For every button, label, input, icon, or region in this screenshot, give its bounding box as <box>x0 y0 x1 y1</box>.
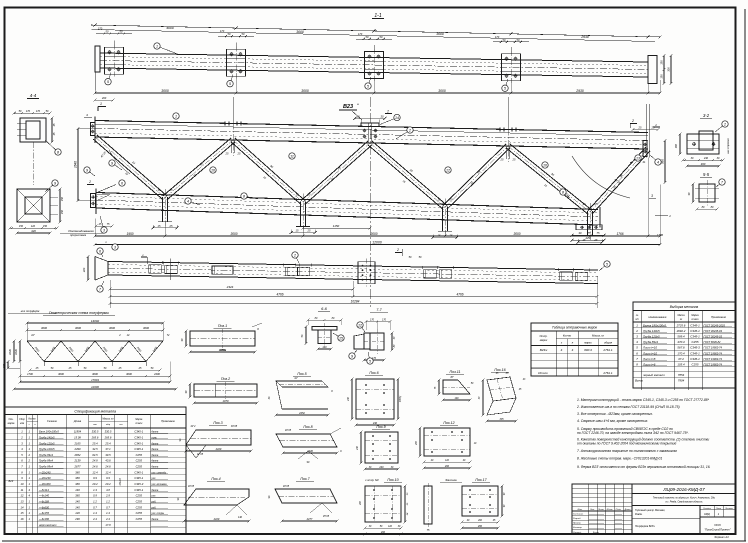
svg-text:С255: С255 <box>136 517 143 521</box>
svg-text:265.6: 265.6 <box>104 435 112 439</box>
svg-text:2: 2 <box>723 122 726 126</box>
svg-text:1150: 1150 <box>333 224 340 228</box>
svg-text:12000: 12000 <box>91 385 99 389</box>
svg-text:25: 25 <box>169 188 173 192</box>
svg-text:170: 170 <box>358 32 363 36</box>
svg-text:3000: 3000 <box>513 232 520 236</box>
svg-text:25: 25 <box>225 152 229 156</box>
svg-text:1: 1 <box>175 114 177 118</box>
svg-text:25: 25 <box>594 202 598 206</box>
svg-text:№: № <box>636 314 639 317</box>
svg-text:4000: 4000 <box>166 26 174 30</box>
svg-text:Листов: Листов <box>724 508 733 510</box>
svg-text:2: 2 <box>396 248 399 252</box>
svg-text:40°25: 40°25 <box>285 429 292 432</box>
svg-text:200: 200 <box>477 520 483 522</box>
svg-text:2477: 2477 <box>306 517 313 521</box>
svg-text:13: 13 <box>21 500 24 504</box>
svg-text:1712.8: 1712.8 <box>119 478 122 486</box>
svg-text:300: 300 <box>701 162 706 166</box>
svg-text:1. Материал конструкций - стал: 1. Материал конструкций - сталь марок С3… <box>577 398 710 402</box>
svg-text:25: 25 <box>237 152 241 156</box>
svg-text:560: 560 <box>661 159 665 164</box>
svg-text:Спецификация металла: Спецификация металла <box>74 410 116 414</box>
svg-text:С255: С255 <box>692 340 699 344</box>
svg-text:Итого: Итого <box>538 371 548 375</box>
svg-text:41°: 41° <box>294 377 298 380</box>
svg-text:14: 14 <box>395 116 399 120</box>
svg-text:265.6: 265.6 <box>91 435 99 439</box>
svg-text:Поз.5: Поз.5 <box>297 372 306 376</box>
svg-text:150: 150 <box>660 60 664 65</box>
svg-text:Провер.: Провер. <box>573 523 582 525</box>
svg-text:Лист: Лист <box>597 509 604 511</box>
svg-text:11954: 11954 <box>74 430 82 434</box>
svg-text:200: 200 <box>444 465 450 468</box>
svg-text:В23: В23 <box>343 104 353 110</box>
svg-text:С345-1: С345-1 <box>690 329 700 333</box>
svg-text:20.2: 20.2 <box>91 482 98 486</box>
svg-text:2.4: 2.4 <box>92 517 97 521</box>
svg-text:140: 140 <box>75 500 80 504</box>
svg-text:Поз.16: Поз.16 <box>494 368 505 372</box>
svg-text:5: 5 <box>504 87 506 91</box>
svg-text:17.8: 17.8 <box>105 523 111 527</box>
svg-text:39.5: 39.5 <box>105 453 111 457</box>
svg-text:1056в: 1056в <box>219 348 227 352</box>
svg-text:Н.контр.: Н.контр. <box>573 527 583 529</box>
svg-text:25: 25 <box>500 158 504 162</box>
svg-text:3000: 3000 <box>75 326 81 330</box>
svg-text:3000: 3000 <box>58 372 64 376</box>
svg-text:2652: 2652 <box>74 453 81 457</box>
svg-text:Согласов.: Согласов. <box>573 513 584 515</box>
svg-text:37.2: 37.2 <box>678 357 684 361</box>
svg-text:Примечание: Примечание <box>711 315 726 319</box>
svg-text:2. Изготовление шв-в по сеткам: 2. Изготовление шв-в по сеткам ГОСТ 2311… <box>576 405 680 409</box>
svg-text:32.5: 32.5 <box>92 447 98 451</box>
svg-text:2761.1: 2761.1 <box>602 348 613 352</box>
svg-text:3000: 3000 <box>436 32 444 36</box>
svg-text:9. Ферма В23' отличается от фе: 9. Ферма В23' отличается от фермы В23н з… <box>577 465 711 469</box>
svg-text:С345-1: С345-1 <box>134 441 143 445</box>
svg-text:0.9: 0.9 <box>93 494 97 498</box>
svg-text:С255: С255 <box>136 494 143 498</box>
svg-text:300: 300 <box>675 143 678 148</box>
svg-text:С345-3: С345-3 <box>134 482 143 486</box>
svg-text:140: 140 <box>75 505 80 509</box>
svg-text:1640: 1640 <box>14 349 18 355</box>
svg-text:марка: марка <box>8 422 15 425</box>
svg-text:15: 15 <box>21 511 24 515</box>
svg-text:140: 140 <box>455 397 460 400</box>
svg-text:5: 5 <box>107 80 109 84</box>
svg-text:4766: 4766 <box>276 293 283 297</box>
svg-text:12.4: 12.4 <box>105 470 111 474</box>
svg-text:С345-1: С345-1 <box>134 435 143 439</box>
svg-text:С345-1: С345-1 <box>690 335 700 339</box>
svg-text:2: 2 <box>635 329 638 333</box>
svg-text:2761.1: 2761.1 <box>602 371 613 375</box>
svg-text:25: 25 <box>98 223 102 226</box>
svg-text:2490: 2490 <box>74 447 81 451</box>
svg-text:В23': В23' <box>8 479 14 483</box>
svg-text:2: 2 <box>386 110 389 114</box>
svg-text:12000: 12000 <box>372 241 382 245</box>
svg-text:40°25: 40°25 <box>283 485 290 488</box>
svg-text:300: 300 <box>667 67 671 72</box>
svg-text:Подп.: Подп. <box>616 508 622 511</box>
svg-text:Поз.10: Поз.10 <box>387 478 398 482</box>
svg-text:С345-1: С345-1 <box>134 430 143 434</box>
svg-text:140: 140 <box>238 516 243 519</box>
svg-text:Осн.: Осн. <box>8 418 13 421</box>
svg-text:12: 12 <box>21 494 24 498</box>
svg-text:0.7: 0.7 <box>93 505 97 509</box>
svg-text:64.5: 64.5 <box>92 453 98 457</box>
svg-text:3000: 3000 <box>230 232 237 236</box>
svg-text:С345-1: С345-1 <box>134 488 143 492</box>
svg-text:Поз.3: Поз.3 <box>213 421 222 425</box>
svg-text:45°25: 45°25 <box>323 515 330 518</box>
svg-text:Тентовый комплекс по адресу ул: Тентовый комплекс по адресу ул. Колич. А… <box>653 497 716 500</box>
svg-text:Кол.: Кол. <box>590 509 595 511</box>
svg-text:3: 3 <box>103 228 105 232</box>
svg-text:2139: 2139 <box>74 459 81 463</box>
svg-text:4-4: 4-4 <box>30 93 37 98</box>
svg-text:Поз.1: Поз.1 <box>218 324 227 328</box>
svg-text:2930: 2930 <box>580 35 589 39</box>
svg-text:150: 150 <box>43 225 48 228</box>
svg-text:15: 15 <box>339 336 343 340</box>
svg-text:Поз.17: Поз.17 <box>475 478 487 482</box>
svg-text:1766: 1766 <box>657 233 664 237</box>
svg-text:Ревда.: Ревда. <box>635 513 643 516</box>
svg-text:7. Антикоррозионная покрытие п: 7. Антикоррозионная покрытие по согласов… <box>577 449 677 453</box>
svg-text:С255: С255 <box>136 465 143 469</box>
svg-text:Примечание: Примечание <box>161 420 175 423</box>
svg-text:3000: 3000 <box>143 326 149 330</box>
svg-text:1.4: 1.4 <box>93 511 97 515</box>
svg-text:Кол-во: Кол-во <box>563 334 572 338</box>
svg-text:5: 5 <box>606 262 608 266</box>
svg-text:ООО: ООО <box>714 523 721 527</box>
svg-text:2400: 2400 <box>153 372 160 376</box>
svg-text:3: 3 <box>114 245 116 249</box>
svg-text:41°: 41° <box>31 334 35 337</box>
svg-text:380: 380 <box>75 482 80 486</box>
svg-text:низ стропил: низ стропил <box>727 138 730 154</box>
svg-text:стали: стали <box>691 318 699 321</box>
svg-text:12: 12 <box>446 168 450 172</box>
svg-text:1766: 1766 <box>616 232 623 236</box>
svg-text:С255: С255 <box>136 453 143 457</box>
svg-text:С255: С255 <box>136 500 143 504</box>
svg-text:9.9: 9.9 <box>93 476 97 480</box>
svg-text:10: 10 <box>21 482 24 486</box>
svg-text:прорисовка: прорисовка <box>70 233 86 237</box>
svg-text:25: 25 <box>512 158 516 162</box>
svg-text:по ГОСТ 2246-70, на заводе эле: по ГОСТ 2246-70, на заводе электродами т… <box>577 431 689 435</box>
svg-text:25.4: 25.4 <box>91 441 98 445</box>
svg-text:С255: С255 <box>136 505 143 509</box>
svg-text:235: 235 <box>3 363 6 369</box>
svg-text:16: 16 <box>21 517 24 521</box>
svg-text:25: 25 <box>169 224 173 228</box>
svg-text:С345-1: С345-1 <box>690 351 700 355</box>
svg-text:17004: 17004 <box>91 378 99 382</box>
svg-text:9: 9 <box>351 354 353 358</box>
svg-text:Геометрическая схема полуфермы: Геометрическая схема полуфермы <box>49 311 109 315</box>
svg-text:43.6: 43.6 <box>105 459 111 463</box>
svg-text:4. Сварные швы 4+6 мм, кроме о: 4. Сварные швы 4+6 мм, кроме оговоренных… <box>577 419 648 423</box>
svg-text:200: 200 <box>101 96 107 100</box>
svg-text:105.4: 105.4 <box>677 363 685 367</box>
svg-text:290: 290 <box>74 517 80 521</box>
svg-text:41°25: 41°25 <box>197 453 204 456</box>
svg-text:380: 380 <box>75 494 80 498</box>
svg-text:2: 2 <box>631 119 634 123</box>
svg-text:Разраб.: Разраб. <box>573 518 581 520</box>
svg-text:20.2: 20.2 <box>104 482 111 486</box>
svg-text:45°: 45° <box>450 376 454 379</box>
svg-text:С255: С255 <box>692 363 699 367</box>
svg-text:С255: С255 <box>136 459 143 463</box>
svg-text:5: 5 <box>229 82 231 86</box>
svg-text:2429: 2429 <box>213 517 220 521</box>
svg-text:25: 25 <box>307 229 311 233</box>
svg-text:Масса, кг: Масса, кг <box>102 418 114 421</box>
svg-text:3000у: 3000у <box>400 395 402 402</box>
svg-text:140: 140 <box>322 346 327 349</box>
svg-text:12: 12 <box>358 323 362 327</box>
svg-text:Марка: Марка <box>691 314 699 317</box>
svg-text:0.7: 0.7 <box>106 505 110 509</box>
svg-text:170: 170 <box>370 319 375 322</box>
svg-text:марки: марки <box>584 342 592 345</box>
svg-text:Фурм.: Фурм. <box>593 531 600 534</box>
svg-text:15.08: 15.08 <box>74 435 81 439</box>
svg-text:25: 25 <box>449 197 453 201</box>
svg-text:4: 4 <box>187 199 189 203</box>
svg-text:37.1: 37.1 <box>105 447 111 451</box>
svg-text:140: 140 <box>75 488 80 492</box>
svg-text:3000: 3000 <box>296 30 304 34</box>
svg-text:11: 11 <box>290 154 294 158</box>
svg-text:25: 25 <box>449 233 453 237</box>
svg-text:Сечение: Сечение <box>47 420 58 423</box>
svg-text:2930: 2930 <box>575 89 584 93</box>
svg-text:280: 280 <box>477 525 483 528</box>
svg-text:2429: 2429 <box>215 447 222 451</box>
svg-text:690.3: 690.3 <box>584 348 592 352</box>
svg-text:3000: 3000 <box>41 326 47 330</box>
svg-text:150: 150 <box>19 225 24 228</box>
svg-text:4.8: 4.8 <box>106 488 110 492</box>
svg-text:5-5: 5-5 <box>703 172 710 177</box>
svg-text:589.4: 589.4 <box>677 335 685 339</box>
svg-text:25.4: 25.4 <box>104 441 111 445</box>
svg-text:"ПромСтройПроект": "ПромСтройПроект" <box>704 528 731 532</box>
svg-text:ном: ном <box>20 423 25 425</box>
svg-text:Торговый центр. Весовая,: Торговый центр. Весовая, <box>635 509 665 512</box>
svg-text:260: 260 <box>360 500 362 506</box>
svg-text:6-6: 6-6 <box>321 306 328 311</box>
svg-text:2324: 2324 <box>226 285 234 289</box>
svg-text:3-2: 3-2 <box>703 113 710 118</box>
svg-text:1: 1 <box>156 44 158 48</box>
svg-text:Отпр.: Отпр. <box>539 334 547 338</box>
svg-text:Поз.7: Поз.7 <box>300 477 310 481</box>
svg-text:240: 240 <box>378 466 384 469</box>
svg-text:от окалины по ГОСТ 9.402-2004: от окалины по ГОСТ 9.402-2004 под механи… <box>577 442 677 446</box>
svg-text:1.4: 1.4 <box>106 511 110 515</box>
svg-text:200: 200 <box>416 440 418 446</box>
svg-text:3000: 3000 <box>370 232 377 236</box>
svg-text:7854: 7854 <box>678 373 685 377</box>
svg-text:25: 25 <box>638 126 642 130</box>
svg-text:1070: 1070 <box>223 399 229 403</box>
svg-text:170: 170 <box>98 27 103 31</box>
svg-text:8: 8 <box>243 194 245 198</box>
svg-text:380: 380 <box>75 470 80 474</box>
svg-text:25: 25 <box>307 193 311 197</box>
svg-text:120: 120 <box>31 225 36 228</box>
svg-text:240: 240 <box>703 157 709 160</box>
svg-text:9: 9 <box>86 168 88 172</box>
svg-text:120: 120 <box>75 511 80 515</box>
svg-text:общая: общая <box>604 341 613 345</box>
svg-text:Изм.: Изм. <box>578 509 583 511</box>
svg-text:2165: 2165 <box>74 441 81 445</box>
svg-text:С345-1: С345-1 <box>690 357 700 361</box>
svg-text:170: 170 <box>382 319 387 322</box>
svg-text:Длина: Длина <box>73 420 82 423</box>
svg-text:Поз.8: Поз.8 <box>303 425 312 429</box>
svg-text:2: 2 <box>408 128 411 132</box>
svg-text:9: 9 <box>111 161 113 165</box>
svg-text:170: 170 <box>36 110 41 113</box>
svg-text:335: 335 <box>500 418 505 421</box>
svg-text:13: 13 <box>636 156 640 160</box>
svg-text:170.4: 170.4 <box>677 351 685 355</box>
svg-text:8: 8 <box>562 190 564 194</box>
svg-text:С345-3: С345-3 <box>690 346 700 350</box>
svg-text:марки: марки <box>540 339 548 342</box>
svg-text:1.3: 1.3 <box>93 488 97 492</box>
svg-text:2692.2: 2692.2 <box>676 329 686 333</box>
svg-text:узл. опоры: узл. опоры <box>151 512 165 515</box>
svg-text:3. Все отверстия - Ø23мм, кром: 3. Все отверстия - Ø23мм, кроме оговорен… <box>577 412 653 416</box>
svg-text:170: 170 <box>26 110 31 113</box>
svg-text:170: 170 <box>495 35 500 39</box>
svg-text:1640: 1640 <box>8 349 12 355</box>
svg-text:10284: 10284 <box>351 300 360 304</box>
svg-text:2.9: 2.9 <box>105 494 110 498</box>
svg-text:12.4: 12.4 <box>92 470 98 474</box>
svg-text:220: 220 <box>82 267 86 273</box>
svg-text:2452: 2452 <box>298 411 305 415</box>
svg-text:1.2: 1.2 <box>106 500 110 504</box>
svg-text:Поз.11: Поз.11 <box>450 370 461 374</box>
svg-text:1700: 1700 <box>27 372 33 376</box>
svg-text:5: 5 <box>367 84 369 88</box>
svg-text:330.5: 330.5 <box>92 430 99 434</box>
svg-text:Марка: Марка <box>135 419 143 421</box>
svg-text:Лист: Лист <box>715 508 722 510</box>
svg-text:3000: 3000 <box>438 89 446 93</box>
svg-text:240: 240 <box>347 396 350 402</box>
svg-text:30°25: 30°25 <box>231 425 238 428</box>
svg-text:ЛЦ09-2016-КМД-07: ЛЦ09-2016-КМД-07 <box>662 487 705 492</box>
svg-text:С255: С255 <box>136 511 143 515</box>
svg-text:10: 10 <box>543 163 547 167</box>
svg-text:5. Сварку производить проволок: 5. Сварку производить проволокой СВ08Г2С… <box>577 427 673 431</box>
svg-text:200: 200 <box>380 531 386 534</box>
svg-text:к отпр. М2: к отпр. М2 <box>365 478 379 482</box>
svg-text:6: 6 <box>121 181 123 185</box>
svg-text:3000: 3000 <box>126 372 132 376</box>
svg-text:4: 4 <box>657 160 659 164</box>
svg-text:низ полуферм: низ полуферм <box>21 309 40 313</box>
svg-text:3000: 3000 <box>92 372 98 376</box>
svg-text:380: 380 <box>75 476 80 480</box>
svg-text:170: 170 <box>220 29 225 33</box>
svg-text:С345-1: С345-1 <box>134 476 143 480</box>
svg-text:6: 6 <box>99 249 101 253</box>
svg-text:Формат А4: Формат А4 <box>714 535 729 539</box>
svg-text:в г. Ревда, Свердловская облас: в г. Ревда, Свердловская область <box>665 501 703 504</box>
svg-text:Кол-во: Кол-во <box>28 419 36 421</box>
svg-text:№док: №док <box>607 508 614 511</box>
svg-text:41°2: 41°2 <box>191 425 197 428</box>
svg-text:2725.6: 2725.6 <box>676 323 686 327</box>
svg-text:4766: 4766 <box>456 293 463 297</box>
svg-text:3000: 3000 <box>109 326 115 330</box>
svg-text:2: 2 <box>88 180 91 184</box>
svg-text:567.6: 567.6 <box>677 346 685 350</box>
svg-text:240: 240 <box>356 445 359 451</box>
svg-text:С345-1: С345-1 <box>134 447 143 451</box>
svg-text:3000: 3000 <box>161 89 169 93</box>
svg-text:150: 150 <box>61 196 64 201</box>
svg-text:Масса: Масса <box>677 314 685 317</box>
svg-text:9: 9 <box>54 181 56 185</box>
svg-text:Поз.2: Поз.2 <box>221 377 230 381</box>
svg-text:3: 3 <box>651 194 653 198</box>
svg-text:шт: шт <box>93 424 97 426</box>
svg-text:Поз.4: Поз.4 <box>211 477 220 481</box>
svg-text:150: 150 <box>61 209 64 214</box>
svg-text:2: 2 <box>293 253 296 257</box>
svg-text:Утверд.: Утверд. <box>573 531 582 534</box>
svg-text:В23'н: В23'н <box>540 348 548 352</box>
svg-text:стали: стали <box>135 423 143 425</box>
svg-text:Масса, кг: Масса, кг <box>592 334 605 338</box>
svg-text:Таблица отправочных марок: Таблица отправочных марок <box>552 326 598 330</box>
svg-text:Поз.9: Поз.9 <box>376 425 385 429</box>
svg-text:24.6: 24.6 <box>91 465 98 469</box>
svg-text:1950: 1950 <box>126 232 133 236</box>
svg-text:150: 150 <box>660 74 664 79</box>
svg-text:Полуферма В23'н: Полуферма В23'н <box>635 525 656 528</box>
svg-text:1: 1 <box>100 102 102 106</box>
svg-text:24.8: 24.8 <box>91 459 98 463</box>
svg-text:8. Жесловые счеты отправ. марк: 8. Жесловые счеты отправ. марк.- СУ01320… <box>577 457 662 461</box>
svg-text:черный металл: черный металл <box>643 373 665 377</box>
svg-text:5: 5 <box>369 359 371 363</box>
svg-text:7904: 7904 <box>678 379 685 383</box>
